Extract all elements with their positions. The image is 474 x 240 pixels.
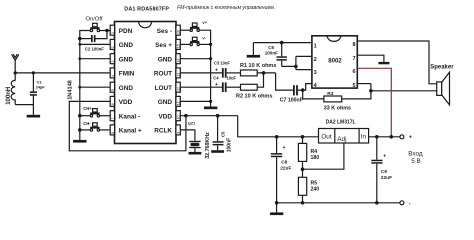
wire: VDD pin6 loop under IC [69, 101, 186, 150]
pin box 9 [176, 125, 180, 135]
node: V- tee [209, 43, 212, 46]
svg-text:22uF: 22uF [280, 166, 291, 172]
svg-text:33 K ohms: 33 K ohms [324, 106, 351, 112]
wire: junction down to C7 [276, 73, 294, 90]
wire: GND pin14 to gnd bus [180, 58, 210, 60]
resistor R4 [298, 137, 306, 162]
wire: speaker bottom [371, 90, 437, 92]
node: gnd tee 14 [209, 57, 212, 60]
resistor R1 [241, 70, 258, 76]
wire: V+ to right gnd bus [200, 30, 211, 106]
wire: V- to right gnd bus [200, 43, 211, 45]
svg-text:GND: GND [158, 56, 173, 63]
wire: bus to GND pin 3 [80, 58, 111, 60]
pin box 1 [110, 25, 114, 35]
svg-text:R2 10 K ohms: R2 10 K ohms [236, 94, 272, 100]
node: gnd tee 11 [209, 100, 212, 103]
node: PDN junction [105, 29, 109, 33]
node: bus tee pin5 [78, 86, 81, 89]
antenna W1 [12, 54, 19, 73]
ground: 8002 pin7 [378, 62, 389, 64]
inductor L1 coil [11, 73, 15, 105]
node: C8 top [275, 135, 279, 139]
pushbutton SB1 On/Off [90, 23, 99, 31]
node: R4 top tee [301, 135, 305, 139]
wire: C4 to R2 [227, 86, 241, 88]
svg-text:In: In [361, 133, 367, 140]
pin divider In [358, 129, 360, 144]
node: R5 bottom [301, 201, 305, 205]
amplifier IC 8002 body [312, 36, 357, 88]
svg-text:Kanal -: Kanal - [119, 113, 140, 120]
pin box 4 [110, 68, 114, 78]
svg-text:10uF: 10uF [227, 76, 237, 81]
wire: Ses+ pin to V- button [180, 43, 190, 45]
node: C9 top [375, 135, 379, 139]
svg-text:16: 16 [177, 30, 181, 34]
svg-text:C1: C1 [37, 79, 43, 84]
pin box 5 [110, 82, 114, 92]
resistor R3 [324, 96, 342, 102]
pin box 3 [110, 54, 114, 64]
svg-text:CH+: CH+ [83, 106, 92, 111]
svg-text:V+: V+ [202, 21, 208, 25]
svg-text:7: 7 [111, 118, 115, 120]
notch 8002 [327, 36, 341, 42]
node: bus-CH+ [78, 114, 82, 118]
svg-text:GND: GND [158, 99, 173, 106]
svg-text:1: 1 [314, 43, 317, 49]
svg-text:DA2 LM317L: DA2 LM317L [326, 120, 356, 126]
wire: Ses- pin to V+ button [180, 29, 190, 31]
svg-text:8002: 8002 [328, 59, 342, 65]
wire: bottom rail [277, 202, 400, 204]
svg-text:Ses +: Ses + [155, 42, 172, 49]
node: C9 bottom [375, 201, 379, 205]
svg-text:CH-: CH- [83, 121, 91, 126]
op IC DA1 RDA5807FP body [115, 22, 177, 144]
wire: R3 right up to pin5 node [342, 84, 371, 99]
node: bus-C2 junction [78, 37, 82, 41]
node: C1 tee [32, 71, 35, 74]
wire: PDN node down to C2 [95, 31, 107, 39]
wire: R2 right up to junction [257, 73, 263, 87]
ground: bottom rail [270, 203, 283, 215]
svg-text:+: + [283, 145, 286, 151]
wire: VDD rail down to LM317 out rail [238, 116, 319, 137]
resistor R2 [241, 84, 258, 90]
crystal QZ1 [189, 141, 200, 152]
svg-text:C4: C4 [213, 76, 219, 81]
ground: left bus [73, 140, 86, 143]
svg-text:RCLK: RCLK [154, 128, 172, 135]
svg-text:-: - [409, 201, 411, 207]
wire: LOUT to C4 [180, 86, 222, 88]
svg-text:1N4148: 1N4148 [68, 80, 74, 100]
node: pin5 junction [369, 89, 373, 93]
node: bus tee pin2 [78, 43, 81, 46]
wire: ROUT to C3 [180, 72, 222, 74]
svg-text:GND: GND [119, 85, 134, 92]
svg-text:ROUT: ROUT [154, 71, 172, 78]
svg-text:LOUT: LOUT [155, 85, 172, 92]
pin divider Out [334, 129, 336, 144]
svg-text:R5: R5 [311, 181, 318, 187]
pin box 2 [110, 39, 114, 49]
wire: In to + terminal [369, 136, 400, 138]
node: R1-R2 junction [262, 71, 266, 75]
wire: bus to CH+ [80, 115, 90, 117]
svg-text:2: 2 [314, 57, 317, 63]
wire: Adj to R4-R5 node [303, 143, 344, 169]
wire: pin7 to ground [358, 55, 384, 62]
regulator DA2 LM317L body [319, 129, 369, 144]
pin box 7 [110, 111, 114, 121]
node: VDD loop junction [184, 114, 188, 118]
ground: crystal [189, 152, 202, 155]
svg-text:C9: C9 [381, 169, 387, 175]
svg-text:1: 1 [111, 32, 115, 34]
svg-text:VDD: VDD [119, 99, 133, 106]
terminal: + input [400, 135, 404, 139]
svg-text:12: 12 [177, 87, 181, 91]
capacitor C2 [91, 35, 96, 42]
svg-text:C8: C8 [281, 160, 287, 166]
wire: C3 to R1 [227, 72, 241, 74]
svg-text:QZ1: QZ1 [188, 122, 195, 126]
svg-text:C5: C5 [220, 131, 225, 137]
wire: pin8 to speaker top [358, 41, 437, 84]
svg-text:7: 7 [353, 56, 356, 62]
svg-text:On/Off: On/Off [86, 17, 103, 23]
svg-text:5: 5 [111, 89, 115, 91]
capacitor C7 [293, 85, 298, 95]
svg-text:6: 6 [353, 69, 356, 75]
wire: On/Off right to PDN [100, 30, 111, 32]
speaker LS1 [437, 72, 450, 105]
node: bus tee pin3 [78, 57, 81, 60]
svg-text:FMIN: FMIN [119, 71, 135, 78]
node: pin4 junction [301, 88, 305, 92]
capacitor C9 [371, 137, 382, 203]
svg-text:R1 10 K ohms: R1 10 K ohms [240, 63, 276, 69]
svg-text:100nH: 100nH [6, 87, 12, 105]
svg-text:Out: Out [321, 134, 332, 141]
wire: GND pin11 to gnd bus [180, 100, 210, 102]
node: C8 bottom [275, 201, 279, 205]
wire: R1 right to corner [257, 72, 275, 74]
svg-text:VDD: VDD [159, 113, 173, 120]
wire: CH- to Kanal+ pin [100, 129, 111, 131]
wire: left bus vertical [79, 39, 81, 140]
node: antenna junction [14, 71, 17, 74]
wire: C2 to bus [80, 38, 91, 40]
svg-text:5 В: 5 В [411, 158, 420, 165]
wire: bus to CH- [80, 129, 90, 131]
capacitor C1 [30, 73, 37, 115]
svg-text:GND: GND [119, 42, 134, 49]
capacitor C6 [277, 43, 287, 67]
svg-text:24pF: 24pF [36, 85, 46, 90]
svg-text:Kanal +: Kanal + [119, 128, 142, 135]
svg-text:4: 4 [111, 75, 115, 77]
svg-text:+: + [215, 82, 218, 88]
svg-text:C3 10uF: C3 10uF [214, 61, 230, 66]
ground: C5 [211, 150, 224, 153]
svg-text:13: 13 [177, 73, 181, 77]
wire: bus to GND pin 5 [80, 86, 111, 88]
svg-text:+: + [383, 154, 386, 160]
svg-text:Adj: Adj [337, 136, 346, 143]
pin box 10 [176, 111, 180, 121]
capacitor C4 [222, 82, 227, 92]
pushbutton V+ [190, 23, 199, 31]
svg-text:+: + [215, 68, 218, 74]
pin box 15 [176, 39, 180, 49]
svg-text:32.768KHz: 32.768KHz [205, 132, 211, 159]
svg-text:FM-приёмник с кнопочным управл: FM-приёмник с кнопочным управлением. [177, 5, 275, 11]
svg-text:PDN: PDN [119, 28, 133, 35]
svg-text:14: 14 [177, 59, 181, 63]
capacitor C3 [222, 68, 227, 78]
node: maroon join [390, 135, 394, 139]
svg-text:Ses -: Ses - [157, 28, 172, 35]
wire: pin4 node down to R3 [303, 90, 324, 99]
svg-text:3: 3 [314, 70, 317, 76]
svg-text:+: + [409, 135, 412, 141]
pin box 14 [176, 54, 180, 64]
pushbutton CH+ [90, 109, 99, 117]
node: R4-R5 junction [301, 167, 305, 171]
capacitor C5 [213, 116, 224, 151]
wire: pin5 stub [358, 83, 371, 85]
svg-text:10: 10 [177, 116, 181, 120]
capacitor C8 [271, 137, 282, 203]
ground: 8002 pin1 [247, 43, 260, 58]
wire: C6 bottom to pins 2-3 [282, 56, 312, 69]
wire: On/Off left to bus [80, 31, 90, 39]
pushbutton CH- [90, 123, 99, 131]
wire: pin6 VDD (maroon) [358, 68, 392, 137]
svg-text:8: 8 [353, 42, 356, 48]
terminal: - input [400, 201, 404, 205]
pin box 6 [110, 96, 114, 106]
svg-text:5: 5 [353, 83, 356, 89]
svg-text:100nF: 100nF [265, 51, 278, 56]
wire: C7 to pin4 node [298, 84, 312, 91]
ground: antenna tank [27, 115, 40, 118]
svg-text:100nF: 100nF [226, 138, 232, 152]
svg-text:Speaker: Speaker [430, 65, 454, 71]
wire: VDD pin10 rail [180, 115, 237, 117]
wire: coil bottom to C1 bottom [15, 104, 33, 106]
svg-text:C6: C6 [268, 45, 274, 50]
svg-text:240: 240 [311, 187, 320, 193]
svg-text:22uF: 22uF [381, 175, 392, 181]
node: C6 top junction [280, 41, 284, 45]
svg-text:11: 11 [177, 101, 181, 105]
pin box 11 [176, 96, 180, 106]
pin box 12 [176, 82, 180, 92]
pushbutton V- [190, 37, 199, 45]
resistor R5 [298, 161, 306, 202]
svg-text:8: 8 [111, 132, 115, 134]
svg-text:6: 6 [111, 103, 115, 105]
svg-text:R3: R3 [327, 91, 333, 97]
svg-text:9: 9 [177, 132, 181, 134]
svg-text:3: 3 [111, 61, 115, 63]
svg-text:2: 2 [111, 46, 115, 48]
node: C5 tee [216, 114, 220, 118]
wire: antenna to FMIN pin 4 [15, 72, 110, 74]
pin box 16 [176, 25, 180, 35]
svg-text:DA1 RDA5807FP: DA1 RDA5807FP [124, 7, 169, 13]
svg-text:180: 180 [311, 155, 320, 161]
pin box 8 [110, 125, 114, 135]
svg-text:C2 100nF: C2 100nF [85, 46, 104, 51]
svg-text:GND: GND [119, 56, 134, 63]
wire: RCLK to crystal [180, 130, 195, 141]
svg-text:15: 15 [177, 44, 181, 48]
node: C6-pin2/3 junction [294, 65, 298, 69]
svg-text:C7 100nF: C7 100nF [280, 98, 303, 104]
pin box 13 [176, 68, 180, 78]
ground: right of DA1 [204, 107, 217, 110]
node: bus-CH- [78, 128, 82, 132]
svg-text:Вход: Вход [408, 151, 423, 158]
notch DA1 [139, 22, 152, 28]
wire: bus to GND pin 2 [80, 43, 111, 45]
wire: CH+ to Kanal- pin [100, 115, 111, 117]
wire: gnd to 8002 pin1 [253, 42, 312, 44]
